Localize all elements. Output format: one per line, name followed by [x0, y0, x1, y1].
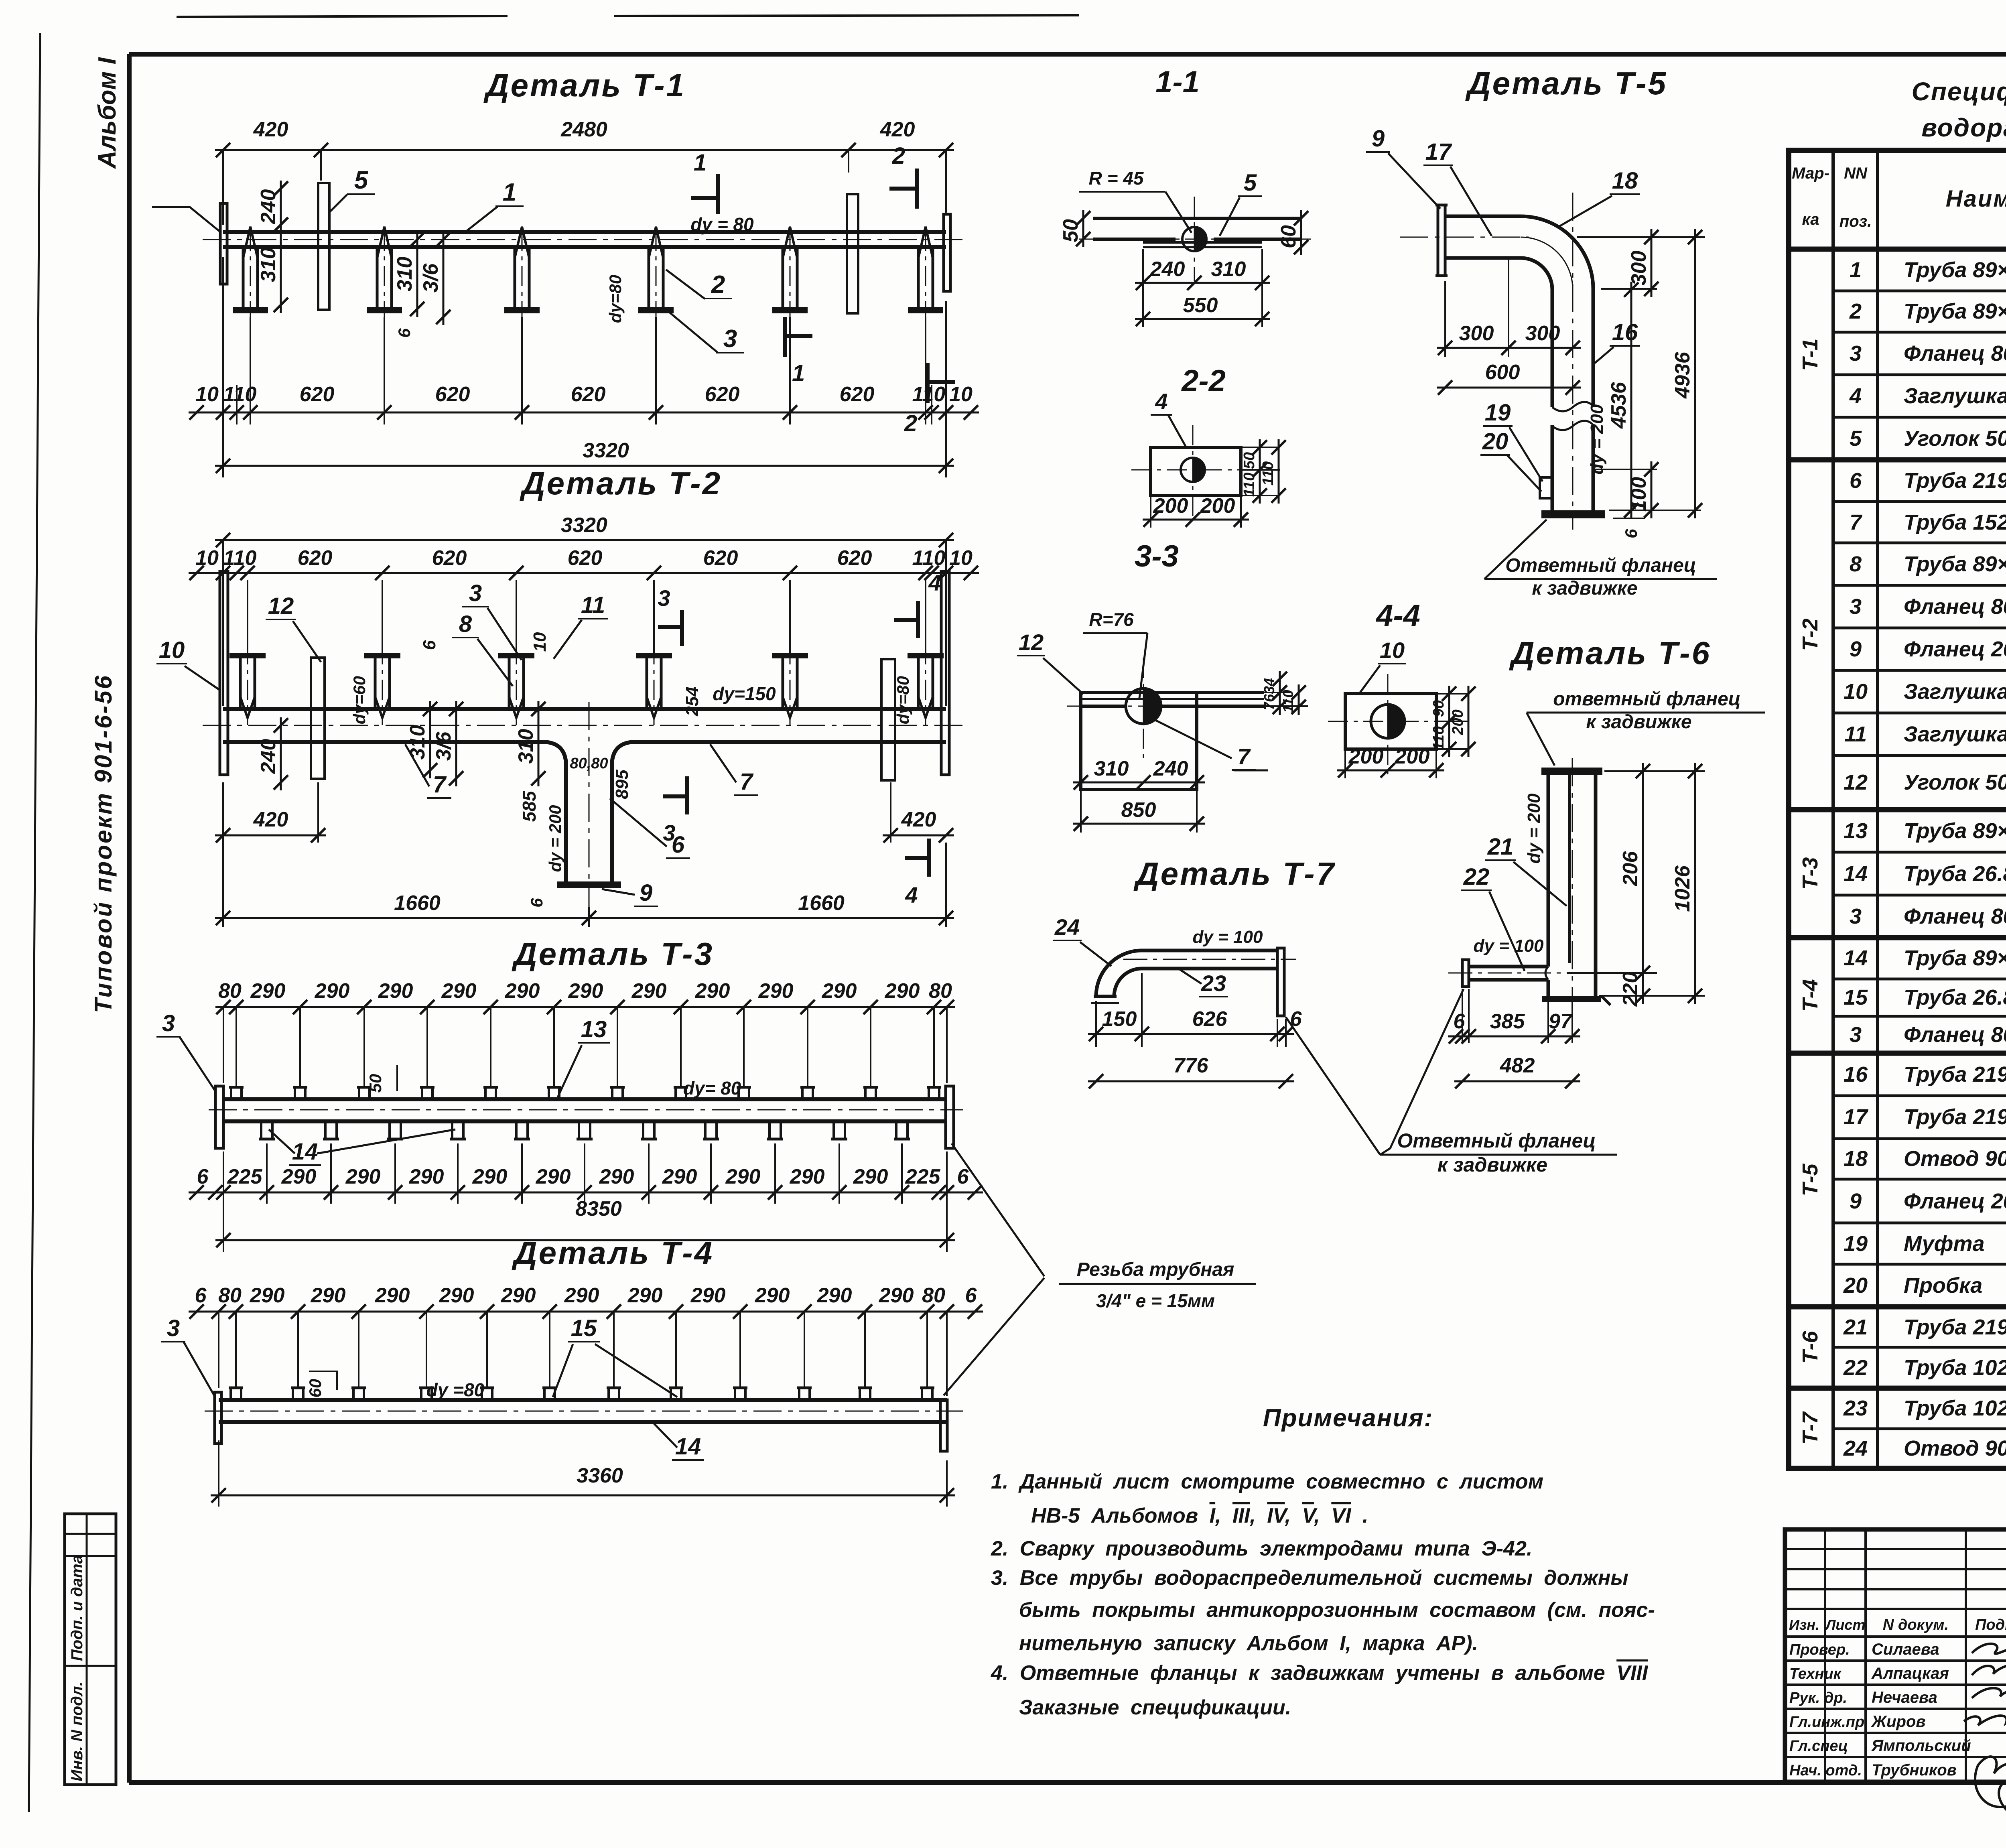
Т-5 flange поз.9 left [1438, 205, 1445, 276]
Т-1 end cap поз.4 right [944, 214, 950, 291]
svg-text:310: 310 [406, 725, 429, 760]
svg-text:Жиров: Жиров [1871, 1713, 1926, 1730]
svg-text:290: 290 [662, 1165, 697, 1188]
svg-text:310: 310 [1094, 757, 1129, 780]
svg-text:dy = 200: dy = 200 [546, 805, 564, 872]
svg-text:2. Сварку производить эле: 2. Сварку производить электродами типа Э… [991, 1537, 1532, 1560]
svg-text:1660: 1660 [394, 892, 441, 915]
4-4 centerlines [1387, 674, 1389, 774]
svg-text:10: 10 [949, 546, 973, 570]
2-2 hole [1181, 458, 1205, 482]
svg-text:Труба 102×2: Труба 102×2 [1904, 1396, 2006, 1420]
svg-text:Труба 89×2.5: Труба 89×2.5 [1904, 299, 2006, 323]
svg-text:Отвод 90° 100 с40: Отвод 90° 100 с40 [1904, 1436, 2006, 1460]
svg-text:4936: 4936 [1671, 351, 1694, 399]
svg-text:Т-5: Т-5 [1798, 1164, 1822, 1196]
svg-text:620: 620 [840, 383, 875, 406]
svg-text:Инв. N подл.: Инв. N подл. [68, 1681, 86, 1781]
Т-4 vertical drops [235, 1312, 237, 1389]
Т-3 dim 8350 [223, 1151, 224, 1252]
svg-text:21: 21 [1487, 834, 1514, 860]
svg-text:Фланец 200-2.5: Фланец 200-2.5 [1904, 1189, 2006, 1213]
Т-7 pipe поз.23 [1142, 949, 1277, 952]
svg-text:10: 10 [1844, 680, 1868, 704]
svg-text:19: 19 [1844, 1232, 1868, 1256]
svg-text:Уголок 50×50×5: Уголок 50×50×5 [1904, 426, 2006, 451]
svg-text:Труба 152×3.2: Труба 152×3.2 [1904, 510, 2006, 534]
Т-6 pipe centerline [1572, 758, 1573, 1011]
svg-text:290: 290 [441, 979, 477, 1003]
svg-text:Заглушка ф 240 δ=10: Заглушка ф 240 δ=10 [1904, 722, 2006, 746]
Т-4 dim 3360 [218, 1440, 219, 1507]
1-1 centerlines [1194, 197, 1195, 281]
svg-text:290: 290 [627, 1284, 663, 1307]
svg-text:2: 2 [892, 143, 905, 169]
Т-5 vertical pipe lower [1551, 425, 1554, 510]
svg-text:Т-1: Т-1 [1798, 339, 1822, 371]
svg-text:Фланец 80-2.5: Фланец 80-2.5 [1904, 904, 2006, 928]
Т-3 end caps поз.3 [215, 1086, 223, 1148]
svg-text:Гл.инж.пр: Гл.инж.пр [1789, 1714, 1864, 1730]
svg-text:290: 290 [472, 1165, 508, 1188]
svg-text:Трубников: Трубников [1872, 1761, 1957, 1779]
Т-5 horizontal centerline [1400, 237, 1529, 238]
svg-text:90: 90 [1430, 700, 1447, 717]
svg-text:dy=80: dy=80 [606, 275, 625, 323]
svg-text:550: 550 [1183, 294, 1218, 317]
svg-text:12: 12 [1844, 770, 1868, 794]
svg-text:310: 310 [514, 729, 538, 764]
svg-text:3: 3 [1850, 904, 1862, 928]
svg-text:18: 18 [1844, 1147, 1868, 1171]
svg-text:Деталь Т-4: Деталь Т-4 [512, 1235, 714, 1271]
4-4 dim 200 200 [1344, 751, 1346, 778]
svg-text:290: 290 [690, 1284, 726, 1307]
svg-text:6: 6 [957, 1165, 969, 1188]
svg-text:10: 10 [195, 383, 219, 406]
svg-text:110: 110 [912, 546, 946, 570]
svg-text:Альбом I: Альбом I [93, 57, 121, 169]
svg-text:Деталь Т-2: Деталь Т-2 [520, 465, 722, 501]
svg-text:Провер.: Провер. [1789, 1641, 1850, 1658]
svg-text:310: 310 [393, 257, 416, 292]
svg-text:Муфта: Муфта [1904, 1232, 1985, 1256]
svg-text:850: 850 [1121, 798, 1156, 822]
svg-text:50: 50 [1241, 452, 1258, 469]
svg-text:225: 225 [905, 1165, 941, 1188]
svg-text:15: 15 [571, 1315, 597, 1341]
Т-6 right dims 206 1026 220 [1604, 770, 1705, 772]
Т-2 angle поз.12 left [311, 658, 325, 779]
Т-2 stubs поз.8 up [239, 658, 242, 709]
svg-text:290: 290 [599, 1165, 634, 1188]
svg-text:4: 4 [905, 882, 918, 908]
3-3 plate поз.12/7 [1081, 692, 1197, 790]
svg-text:14: 14 [292, 1139, 318, 1165]
svg-text:Подп. и дата: Подп. и дата [68, 1555, 86, 1661]
Т-3 top stubs поз.14 [230, 1087, 232, 1099]
svg-text:2: 2 [711, 271, 725, 299]
Т-1 stubs поз.2 with flanges поз.3 [242, 247, 245, 307]
svg-text:13: 13 [581, 1016, 607, 1042]
svg-text:dy=80: dy=80 [893, 676, 912, 724]
svg-text:Труба 219×6: Труба 219×6 [1904, 1105, 2006, 1129]
svg-text:3/6: 3/6 [432, 731, 455, 761]
svg-text:9: 9 [640, 880, 652, 906]
Т-1 leader to left cap [152, 207, 220, 232]
svg-text:Техник: Техник [1789, 1665, 1842, 1682]
svg-text:ка: ка [1802, 211, 1819, 228]
4-4 hole [1371, 705, 1405, 738]
Т-5 bottom flange [1541, 510, 1605, 518]
svg-text:300: 300 [1627, 251, 1651, 286]
svg-text:22: 22 [1463, 864, 1490, 890]
Т-2 section mark 3 top [680, 610, 684, 646]
3-3 dim 310 240 [1080, 791, 1082, 833]
svg-text:420: 420 [901, 808, 936, 831]
svg-text:290: 290 [853, 1165, 888, 1188]
svg-text:Деталь Т-6: Деталь Т-6 [1509, 635, 1711, 671]
svg-text:13: 13 [1844, 819, 1868, 843]
Т-1 top dimension 420|2480|420 [215, 149, 954, 151]
svg-text:620: 620 [703, 546, 738, 570]
Т-2 tee bottom flange поз.9 [557, 881, 621, 888]
svg-text:50: 50 [366, 1074, 385, 1093]
Т-6 top flange [1541, 768, 1602, 775]
Т-1 bottom dimension chain [250, 317, 251, 424]
svg-text:1: 1 [792, 360, 805, 386]
Т-2 section mark 3 bottom [685, 776, 689, 814]
svg-text:290: 290 [501, 1284, 536, 1307]
svg-text:5: 5 [1850, 426, 1862, 451]
svg-text:300: 300 [1459, 322, 1494, 345]
svg-text:Алпацкая: Алпацкая [1871, 1665, 1949, 1682]
Т-1 angle поз.5 left [318, 183, 329, 310]
svg-text:14: 14 [1844, 946, 1868, 970]
svg-text:2: 2 [1849, 299, 1862, 323]
svg-text:290: 290 [250, 1284, 285, 1307]
Т-1 end cap поз.4 left [220, 203, 227, 284]
svg-text:к задвижке: к задвижке [1586, 711, 1691, 733]
svg-text:290: 290 [505, 979, 540, 1003]
svg-text:3/4" e = 15мм: 3/4" e = 15мм [1096, 1290, 1215, 1311]
svg-text:290: 290 [409, 1165, 444, 1188]
svg-text:Подп.: Подп. [1975, 1616, 2006, 1633]
3-3 pipe wall strip [1081, 691, 1264, 694]
svg-text:7: 7 [1237, 744, 1251, 769]
svg-text:23: 23 [1201, 971, 1226, 996]
Т-5 vertical centerline [1572, 193, 1574, 530]
svg-text:Уголок 50×50×5: Уголок 50×50×5 [1904, 770, 2006, 794]
svg-text:Труба 89×2.5: Труба 89×2.5 [1904, 258, 2006, 282]
svg-text:Гл.спец: Гл.спец [1789, 1738, 1848, 1755]
Т-5 vertical pipe поз.16 upper [1551, 289, 1554, 407]
svg-text:2-2: 2-2 [1181, 364, 1226, 398]
Т-2 main pipe поз.7 [223, 707, 946, 711]
svg-text:420: 420 [880, 118, 915, 141]
svg-text:быть покрыты антикоррози: быть покрыты антикоррозионным составом (… [1019, 1598, 1655, 1622]
svg-text:Труба 26.8×2.8: Труба 26.8×2.8 [1904, 862, 2006, 886]
svg-text:Труба 89×2.5: Труба 89×2.5 [1904, 819, 2006, 843]
svg-text:Деталь Т-3: Деталь Т-3 [512, 936, 714, 972]
svg-text:3: 3 [1850, 1023, 1862, 1047]
svg-text:3: 3 [167, 1315, 180, 1341]
title block header row line [1785, 1635, 2006, 1638]
svg-text:6: 6 [395, 328, 414, 338]
spec table header bottom [1789, 247, 2006, 252]
svg-text:620: 620 [432, 546, 467, 570]
svg-text:110: 110 [1280, 690, 1296, 713]
svg-text:110: 110 [223, 383, 257, 406]
4-4 plate поз.10 [1345, 694, 1436, 749]
svg-text:600: 600 [1485, 361, 1520, 384]
svg-text:110: 110 [223, 546, 257, 570]
svg-text:dy = 100: dy = 100 [1193, 927, 1263, 947]
svg-text:Труба 219×6: Труба 219×6 [1904, 1062, 2006, 1086]
svg-text:15: 15 [1844, 985, 1868, 1009]
svg-text:200: 200 [1395, 745, 1430, 768]
svg-text:290: 290 [822, 979, 857, 1003]
Т-1 dim 3320 [215, 465, 954, 467]
Т-4 leader to thread note [944, 1278, 1044, 1395]
svg-text:385: 385 [1490, 1010, 1525, 1033]
Т-4 end caps [215, 1392, 221, 1444]
1-1 pipe wall [1093, 217, 1301, 220]
svg-text:Отвод 90° 200 с32: Отвод 90° 200 с32 [1904, 1147, 2006, 1171]
svg-text:dy =80: dy =80 [426, 1379, 485, 1400]
svg-text:к задвижке: к задвижке [1437, 1153, 1547, 1176]
svg-text:240: 240 [1153, 757, 1188, 780]
Т-5 right dims 300 4536 4936 [1577, 236, 1705, 238]
Т-7 bottom dims 150 626 6 [1095, 1001, 1097, 1047]
Т-1 section mark 1 bottom [783, 317, 787, 357]
svg-text:310: 310 [1211, 258, 1246, 281]
svg-text:290: 290 [281, 1165, 317, 1188]
svg-text:Заказные спецификации.: Заказные спецификации. [1019, 1696, 1291, 1719]
svg-text:10: 10 [530, 632, 550, 652]
svg-text:Заглушка 400×200; δ=10: Заглушка 400×200; δ=10 [1904, 680, 2006, 704]
svg-text:dy = 200: dy = 200 [1587, 404, 1607, 474]
svg-text:290: 290 [695, 979, 730, 1003]
svg-text:4-4: 4-4 [1375, 599, 1420, 633]
Т-5 pipe break [1552, 402, 1593, 411]
svg-text:Труба 102×2: Труба 102×2 [1904, 1356, 2006, 1380]
svg-text:1660: 1660 [798, 892, 845, 915]
svg-text:620: 620 [435, 383, 470, 406]
svg-text:6: 6 [965, 1284, 977, 1307]
svg-text:290: 290 [631, 979, 667, 1003]
svg-text:1026: 1026 [1671, 865, 1694, 912]
svg-text:290: 290 [315, 979, 350, 1003]
svg-text:290: 290 [250, 979, 286, 1003]
Т-1 section mark 2 top [915, 169, 919, 209]
svg-text:9: 9 [1850, 1189, 1862, 1213]
frame border [129, 52, 2006, 57]
svg-text:3-3: 3-3 [1135, 539, 1179, 573]
svg-text:34: 34 [1261, 678, 1277, 694]
svg-text:110: 110 [912, 383, 946, 406]
svg-text:Ответный фланец: Ответный фланец [1505, 555, 1696, 576]
1-1 dim 50 left [1082, 210, 1084, 247]
Т-5 dim 100 [1651, 461, 1653, 518]
svg-text:4: 4 [1155, 389, 1167, 414]
Т-1 section mark 2 bottom [926, 363, 930, 403]
svg-text:18: 18 [1612, 168, 1638, 194]
svg-text:11: 11 [1844, 722, 1867, 746]
Т-5 elbow mid arc [1521, 237, 1573, 289]
svg-text:8: 8 [1850, 552, 1862, 576]
svg-text:Т-2: Т-2 [1798, 619, 1822, 651]
svg-text:626: 626 [1192, 1007, 1228, 1031]
svg-text:206: 206 [1619, 851, 1642, 887]
Т-5 муфта поз.19 пробка поз.20 [1540, 477, 1552, 498]
svg-text:200: 200 [1450, 709, 1466, 735]
svg-text:Ямпольский: Ямпольский [1871, 1737, 1971, 1755]
Т-3 vertical drops from top dims [236, 1007, 237, 1088]
svg-text:к задвижке: к задвижке [1532, 578, 1637, 599]
svg-text:3: 3 [1850, 341, 1862, 366]
svg-text:2480: 2480 [560, 118, 607, 141]
svg-text:водораспределительной систе: водораспределительной системы [1921, 113, 2006, 142]
Т-2 dim 420 left [215, 835, 326, 837]
svg-text:Деталь Т-7: Деталь Т-7 [1133, 856, 1336, 892]
svg-text:dy = 100: dy = 100 [1474, 936, 1544, 956]
Т-2 dim 3320 top [215, 539, 954, 541]
svg-text:5: 5 [1244, 170, 1257, 196]
svg-text:20: 20 [1843, 1273, 1868, 1298]
svg-text:ответный фланец: ответный фланец [1553, 688, 1741, 710]
svg-text:290: 290 [817, 1284, 852, 1307]
svg-text:6: 6 [1454, 1010, 1466, 1033]
svg-text:620: 620 [837, 546, 872, 570]
Т-2 vertical dim drops [247, 580, 248, 654]
title block signature column lines [1824, 1529, 1826, 1782]
spec table outer border [1789, 150, 2006, 1468]
Т-2 end cap right [941, 571, 949, 775]
svg-text:254: 254 [682, 686, 702, 716]
svg-text:3/6: 3/6 [419, 263, 443, 292]
svg-text:3: 3 [663, 820, 675, 845]
svg-text:17: 17 [1844, 1105, 1869, 1129]
svg-text:3320: 3320 [561, 514, 607, 537]
Т-3 main pipe поз.13 [223, 1097, 947, 1101]
svg-text:80: 80 [218, 1284, 242, 1307]
svg-text:290: 290 [439, 1284, 474, 1307]
svg-text:3: 3 [469, 580, 482, 606]
svg-text:10: 10 [195, 546, 219, 570]
svg-text:Пробка: Пробка [1904, 1273, 1982, 1298]
svg-text:6: 6 [527, 898, 546, 908]
svg-text:6: 6 [1622, 529, 1641, 538]
svg-text:290: 290 [536, 1165, 571, 1188]
Т-2 section mark 4 top [916, 601, 920, 638]
title block revision grid lines [1785, 1548, 2006, 1550]
svg-text:14: 14 [1844, 862, 1868, 886]
svg-text:620: 620 [571, 383, 606, 406]
Т-3 leader to thread note [952, 1143, 1044, 1276]
svg-text:Мар-: Мар- [1792, 164, 1829, 182]
svg-text:290: 290 [885, 979, 920, 1003]
svg-text:Труба 89×2.5: Труба 89×2.5 [1904, 552, 2006, 576]
3-3 right rotated dims 34 76 110 [1264, 692, 1290, 693]
svg-text:11: 11 [581, 592, 605, 618]
Т-5 dims 300 300 horizontal [1444, 281, 1446, 357]
svg-text:110: 110 [1241, 473, 1258, 497]
svg-text:Рук. др.: Рук. др. [1789, 1690, 1847, 1706]
1-1 hole circle R=45 [1182, 227, 1206, 251]
svg-text:Т-3: Т-3 [1798, 857, 1822, 890]
svg-text:310: 310 [257, 248, 280, 282]
svg-text:290: 290 [378, 979, 413, 1003]
svg-text:8: 8 [459, 611, 472, 637]
svg-text:60: 60 [1277, 225, 1300, 248]
svg-text:Т-4: Т-4 [1798, 979, 1822, 1012]
Т-2 dim 420 right [883, 835, 954, 837]
svg-text:10: 10 [1380, 638, 1405, 663]
svg-text:3. Все трубы водораспредел: 3. Все трубы водораспределительной систе… [991, 1566, 1628, 1590]
left margin small table [65, 1514, 116, 1785]
Т-6 pipe bottom flange [1542, 996, 1601, 1002]
svg-text:Изн.: Изн. [1789, 1616, 1819, 1633]
svg-text:76: 76 [1261, 694, 1277, 710]
Т-2 rotated 310 dims [429, 701, 431, 778]
svg-text:N докум.: N докум. [1883, 1616, 1949, 1633]
svg-text:Фланец 80-2.5: Фланец 80-2.5 [1904, 595, 2006, 619]
svg-text:97: 97 [1549, 1010, 1573, 1033]
svg-text:4. Ответные фланцы к за: 4. Ответные фланцы к задвижкам учтены в … [991, 1661, 1649, 1685]
svg-text:dy = 200: dy = 200 [1524, 793, 1544, 863]
1-1 dim 240 310 [1142, 249, 1144, 327]
svg-text:225: 225 [227, 1165, 263, 1188]
svg-text:R = 45: R = 45 [1089, 168, 1144, 189]
svg-text:Фланец 80-2.5: Фланец 80-2.5 [1904, 341, 2006, 366]
3-3 centerlines [1143, 658, 1144, 762]
svg-text:12: 12 [1019, 630, 1044, 655]
svg-text:4: 4 [928, 570, 941, 595]
1-1 angle поз.5 horizontal leg [1143, 241, 1262, 244]
svg-text:поз.: поз. [1840, 213, 1872, 230]
svg-text:Ответный фланец: Ответный фланец [1397, 1129, 1596, 1152]
Т-6 big pipe поз.21 [1547, 775, 1550, 967]
svg-text:10: 10 [949, 383, 973, 406]
title block signature rows [1785, 1659, 2006, 1662]
Т-3 bottom dim row 6|225|290x11|225|6 [189, 1192, 983, 1194]
svg-text:Деталь Т-1: Деталь Т-1 [483, 67, 686, 103]
4-4 right rotated dims [1436, 693, 1468, 695]
svg-text:Силаева: Силаева [1872, 1641, 1939, 1658]
svg-text:290: 290 [725, 1165, 761, 1188]
svg-text:290: 290 [755, 1284, 790, 1307]
svg-text:Заглушка 400×170; δ=10: Заглушка 400×170; δ=10 [1904, 384, 2006, 408]
svg-text:Труба 89×2.5: Труба 89×2.5 [1904, 946, 2006, 970]
svg-text:dy = 80: dy = 80 [690, 214, 754, 235]
svg-text:620: 620 [705, 383, 740, 406]
svg-text:нительную записку Альбом: нительную записку Альбом I, марка АР). [1019, 1632, 1478, 1655]
svg-text:895: 895 [612, 770, 632, 799]
1-1 dim 550 [1135, 318, 1270, 320]
Т-6 small pipe flange [1462, 960, 1469, 987]
svg-text:290: 290 [879, 1284, 914, 1307]
2-2 dim 200 200 [1150, 497, 1151, 528]
svg-text:80: 80 [929, 979, 952, 1003]
2-2 plate поз.4 [1151, 447, 1241, 496]
svg-text:12: 12 [268, 593, 294, 619]
svg-text:420: 420 [253, 808, 288, 831]
svg-text:Фланец 80-2.5: Фланец 80-2.5 [1904, 1023, 2006, 1047]
svg-text:17: 17 [1425, 139, 1452, 165]
Т-5 dim 600 [1437, 387, 1581, 389]
svg-text:19: 19 [1485, 400, 1511, 426]
